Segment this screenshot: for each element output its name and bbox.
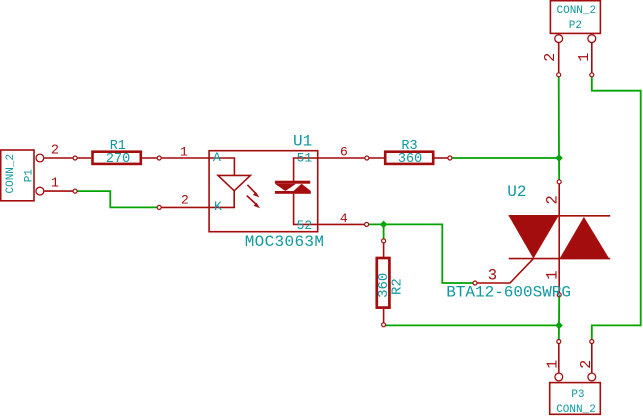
svg-text:A: A [213, 150, 221, 165]
wire P2 pin1 right-edge loop to P3 pin2 [592, 75, 641, 342]
svg-text:MOC3063M: MOC3063M [245, 233, 325, 251]
svg-text:U1: U1 [293, 133, 312, 151]
U2 left triangle [509, 216, 559, 259]
wire node B to U2 gate [384, 224, 475, 283]
svg-text:1: 1 [51, 176, 59, 191]
diac left triangle [275, 184, 296, 191]
pin U1.K (2) [159, 206, 209, 208]
P3 pin 2 line [591, 342, 593, 373]
diac bottom bar [275, 191, 311, 194]
svg-text:6: 6 [340, 145, 348, 160]
wire U1 pin4 to node B [367, 223, 384, 225]
svg-text:BTA12-600SWRG: BTA12-600SWRG [446, 284, 571, 302]
P3 pin 1 line [558, 342, 560, 373]
diac right triangle [294, 184, 311, 191]
svg-text:P1: P1 [23, 169, 35, 183]
wire P2 pin2 down through node A to U2 pin2 [558, 75, 561, 182]
wire P1 pin1 to U1 pin K [75, 191, 159, 207]
svg-text:P3: P3 [571, 389, 584, 401]
node C junction [555, 322, 562, 329]
wire U2 pin1 down through node C to P3 pin1 [558, 295, 560, 342]
U2 gate pin [475, 259, 533, 283]
svg-text:2: 2 [181, 192, 189, 207]
svg-text:4: 4 [340, 211, 348, 226]
svg-text:1: 1 [576, 53, 593, 62]
svg-text:R2: R2 [390, 278, 406, 295]
connector P1 [1, 144, 75, 201]
wire R3 right to node A [450, 157, 559, 159]
svg-text:360: 360 [398, 152, 422, 167]
diac top bar [275, 181, 310, 184]
U2 top bar [509, 215, 611, 217]
internal pin 4 lead [294, 194, 318, 225]
U2 pin 1 lead [558, 259, 560, 295]
P3 pad 2 [588, 373, 596, 381]
P2 pin 2 line [558, 43, 560, 75]
P1 pad 1 [36, 187, 44, 195]
U2 pin 2 lead [558, 182, 560, 216]
svg-text:52: 52 [297, 218, 313, 233]
svg-text:51: 51 [297, 150, 313, 165]
triac U2 BTA12-600SWRG [475, 182, 610, 295]
svg-text:270: 270 [106, 152, 130, 167]
resistor R1 [75, 139, 159, 167]
node A junction [555, 154, 562, 161]
svg-text:2: 2 [578, 360, 595, 369]
LED anode internal lead [209, 158, 234, 175]
LED emission arrow 1 [247, 185, 256, 194]
svg-text:1: 1 [180, 144, 188, 159]
svg-text:CONN_2: CONN_2 [556, 404, 596, 416]
node B junction [380, 221, 387, 228]
svg-text:P2: P2 [569, 20, 582, 32]
resistor R3 [367, 139, 450, 167]
pin U1.A (1) [159, 157, 209, 159]
P2 pad 1 [588, 35, 596, 43]
connector P3 [545, 342, 601, 416]
connector P2 [542, 1, 600, 75]
svg-text:1: 1 [544, 270, 562, 279]
svg-text:2: 2 [51, 144, 59, 159]
LED cathode internal lead [209, 191, 234, 208]
wire node B down to R2 top [383, 224, 385, 241]
pin-end connection circles [73, 73, 594, 344]
svg-text:K: K [214, 199, 222, 214]
P2 pad 2 [555, 35, 563, 43]
optocoupler U1 MOC3063M [209, 133, 324, 251]
svg-text:2: 2 [544, 195, 562, 204]
pin U1.4 [318, 223, 367, 225]
svg-text:CONN_2: CONN_2 [5, 154, 17, 194]
svg-text:U2: U2 [507, 183, 526, 201]
pin U1.6 [318, 157, 367, 159]
P1 pin 2 line [44, 157, 75, 159]
LED triangle [218, 175, 250, 190]
svg-text:2: 2 [542, 53, 559, 62]
svg-text:CONN_2: CONN_2 [557, 5, 597, 17]
U2 bottom bar [509, 258, 611, 260]
U2 right triangle [560, 217, 610, 259]
internal pin 6 lead [294, 158, 318, 181]
U2 vertical conductor [558, 216, 560, 259]
P3 pad 1 [555, 373, 563, 381]
P1 pad 2 [36, 154, 44, 162]
LED emission arrow 2 [247, 196, 257, 205]
svg-text:1: 1 [545, 360, 562, 369]
P2 pin 1 line [591, 43, 593, 75]
P1 pin 1 line [44, 190, 75, 192]
svg-text:3: 3 [488, 266, 497, 284]
resistor R2 [376, 241, 406, 325]
wire R2 bottom to node C [384, 324, 559, 327]
